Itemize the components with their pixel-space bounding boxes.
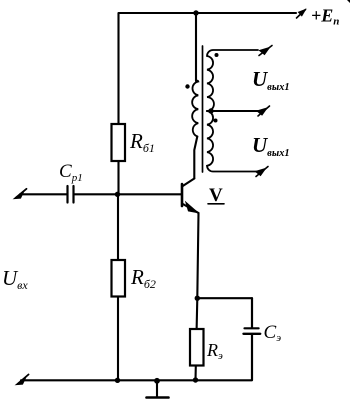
transformer core xyxy=(202,46,204,172)
resistor Rб2 xyxy=(112,260,126,297)
node: top rail junction xyxy=(193,10,198,15)
transistor V xyxy=(182,179,199,214)
svg-text:V: V xyxy=(209,185,223,206)
node: Rб2 bottom junction xyxy=(115,378,120,383)
wire: +En supply rail xyxy=(119,12,296,14)
terminal arrow bottom input xyxy=(17,375,29,385)
wire: emitter vertical xyxy=(197,213,198,298)
capacitor Cэ xyxy=(244,298,261,380)
wire: input line to capacitor xyxy=(20,193,67,195)
svg-text:Cэ: Cэ xyxy=(264,322,282,344)
terminal arrow +En xyxy=(297,10,306,19)
node: center tap xyxy=(208,108,213,113)
wire: center tap output xyxy=(207,110,260,112)
terminal arrow input xyxy=(15,189,27,199)
node: base junction xyxy=(115,192,120,197)
resistor Rэ xyxy=(190,329,204,366)
svg-text:Cр1: Cр1 xyxy=(59,161,83,184)
svg-text:Uвых1: Uвых1 xyxy=(252,133,290,159)
svg-text:Uвых1: Uвых1 xyxy=(252,67,290,93)
wire: bottom rail xyxy=(21,379,252,381)
capacitor Cp1 xyxy=(68,186,74,203)
wire: bias divider vertical xyxy=(117,194,119,380)
transformer secondary winding 2 xyxy=(207,111,258,172)
wire: Re branch xyxy=(196,298,198,380)
wire: Re top horizontal xyxy=(197,297,252,299)
terminal arrow output 3 xyxy=(256,167,269,177)
phase dot secondary 1 xyxy=(215,53,219,57)
svg-text:+Eп: +Eп xyxy=(311,6,339,28)
transformer secondary winding 1 xyxy=(207,50,258,111)
wire: capacitor to base xyxy=(75,193,182,195)
node: emitter branch bottom junction xyxy=(193,377,198,382)
transformer primary winding xyxy=(192,81,198,137)
terminal arrow output 2 xyxy=(257,106,270,116)
svg-text:Rэ: Rэ xyxy=(206,340,223,362)
phase dot primary xyxy=(185,84,189,88)
node: emitter Re junction xyxy=(195,296,200,301)
corner mark xyxy=(347,0,350,3)
svg-text:Rб1: Rб1 xyxy=(129,129,155,155)
wire: collector to transformer primary xyxy=(194,137,197,179)
ground xyxy=(147,381,169,398)
resistor Rб1 xyxy=(112,124,126,161)
terminal arrow output 1 xyxy=(259,46,272,56)
node: ground junction xyxy=(154,378,160,384)
phase dot secondary 2 xyxy=(214,119,218,123)
svg-text:Rб2: Rб2 xyxy=(130,265,156,291)
wire: Rb1 branch vertical xyxy=(117,13,119,194)
wire: primary feed from rail xyxy=(195,13,197,81)
svg-text:Uвх: Uвх xyxy=(2,266,28,292)
